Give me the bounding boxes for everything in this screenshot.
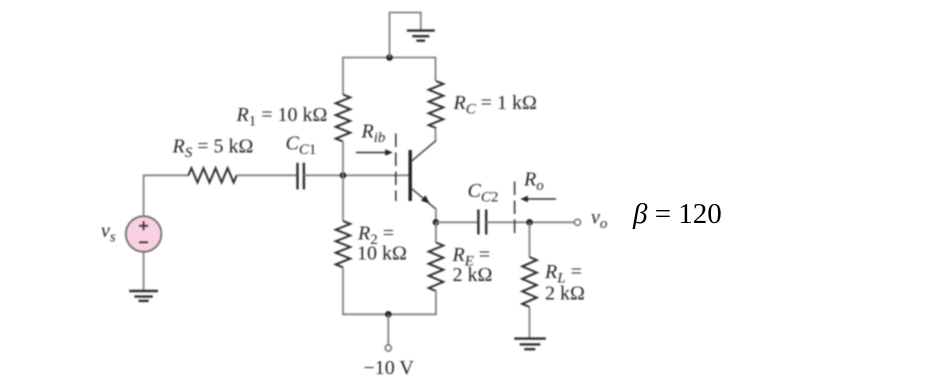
terminal -10V open circle bbox=[385, 345, 391, 351]
ground (below vs) bbox=[129, 291, 158, 301]
resistor RS bbox=[188, 168, 236, 182]
dashed line Rib bbox=[395, 134, 397, 202]
capacitor CC2 bbox=[478, 210, 486, 235]
wire vs to RS bbox=[143, 174, 189, 176]
wire emitter to node bbox=[435, 209, 437, 223]
wire RC bottom to collector bbox=[435, 128, 437, 141]
arrow Rib bbox=[356, 149, 393, 156]
wire RL top (output node to resistor) bbox=[529, 222, 531, 257]
svg-text:vo: vo bbox=[591, 207, 608, 232]
wire RL bottom to ground bbox=[529, 307, 531, 339]
resistor RL bbox=[522, 257, 537, 307]
wire RE top (emitter node to resistor) bbox=[435, 222, 437, 242]
capacitor CC1 bbox=[298, 163, 304, 190]
svg-text:2 kΩ: 2 kΩ bbox=[545, 283, 585, 305]
wire R2 bottom to rail bbox=[342, 267, 344, 315]
wire R1 top (rail to resistor) bbox=[342, 57, 344, 95]
svg-text:10 kΩ: 10 kΩ bbox=[357, 243, 407, 265]
node output junction bbox=[526, 219, 533, 226]
wire vs bottom to ground bbox=[143, 252, 145, 291]
wire RE bottom to rail bbox=[435, 291, 437, 315]
wire vs top riser bbox=[143, 175, 145, 216]
resistor RC bbox=[429, 81, 444, 128]
wire top rail bbox=[342, 57, 436, 59]
resistor RE bbox=[429, 243, 444, 292]
node top rail junction bbox=[386, 54, 393, 61]
voltage source vs bbox=[126, 216, 162, 252]
wire emitter node to CC2 bbox=[436, 221, 477, 223]
svg-text:R1 = 10 kΩ: R1 = 10 kΩ bbox=[236, 104, 328, 129]
transistor Q1 bbox=[410, 141, 436, 210]
svg-text:−10 V: −10 V bbox=[364, 357, 415, 379]
wire CC1 to base (through node) bbox=[304, 174, 409, 176]
svg-text:RS = 5 kΩ: RS = 5 kΩ bbox=[172, 136, 254, 161]
svg-text:CC2: CC2 bbox=[468, 180, 499, 205]
svg-text:vs: vs bbox=[101, 220, 116, 245]
wire to supply terminal bbox=[387, 314, 389, 345]
wire to top ground bbox=[390, 13, 421, 58]
node emitter junction bbox=[433, 219, 440, 226]
wire bottom rail bbox=[342, 313, 437, 315]
arrow Ro bbox=[520, 196, 556, 203]
wire CC2 to output terminal bbox=[486, 221, 574, 223]
wire RC top (rail to resistor) bbox=[435, 57, 437, 81]
wire RS to CC1 bbox=[237, 174, 297, 176]
dashed line Ro bbox=[514, 182, 516, 238]
ground (below RL) bbox=[514, 339, 546, 350]
svg-text:Ro: Ro bbox=[523, 169, 544, 194]
resistor R1 bbox=[336, 95, 351, 142]
label beta = 120 bbox=[633, 198, 722, 231]
svg-text:Rib: Rib bbox=[361, 121, 386, 146]
node bottom rail junction bbox=[385, 311, 392, 318]
svg-text:CC1: CC1 bbox=[286, 133, 317, 158]
svg-text:2 kΩ: 2 kΩ bbox=[453, 264, 493, 286]
wire R1 bottom to base node bbox=[342, 142, 344, 176]
ground (top) bbox=[407, 31, 435, 41]
wire R2 top (base node to resistor) bbox=[342, 175, 344, 221]
terminal vo open circle bbox=[574, 219, 580, 225]
resistor R2 bbox=[336, 221, 351, 267]
node base junction bbox=[340, 172, 347, 179]
svg-text:RC = 1 kΩ: RC = 1 kΩ bbox=[453, 92, 537, 117]
